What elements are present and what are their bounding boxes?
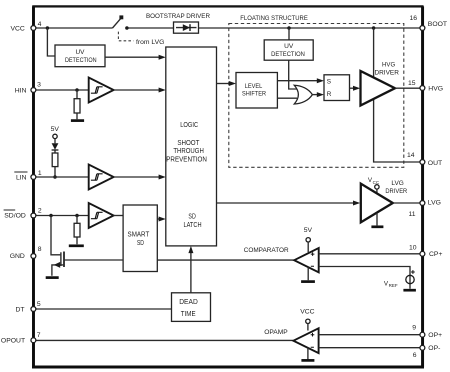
Vref source (406, 275, 414, 283)
svg-text:R: R (327, 91, 332, 98)
SR latch box (324, 75, 350, 101)
junction HIN resistor (75, 88, 79, 92)
wire level shifter to S input (277, 80, 318, 82)
dashed from LVG (118, 32, 133, 41)
wire comparator minus to Vref (319, 267, 410, 289)
smart SD box (123, 205, 157, 272)
svg-text:VCC: VCC (10, 26, 24, 33)
wire LIN buffer to logic (114, 176, 160, 178)
wire mosfet drain to comparator output (64, 259, 294, 261)
svg-text:15: 15 (408, 80, 416, 87)
mosfet Q1 gate path (51, 216, 60, 255)
ground opamp (307, 348, 309, 360)
wire VCC to UV detection (47, 28, 55, 56)
wire UV detection to logic (105, 56, 160, 58)
pin 5 DT (31, 307, 36, 312)
svg-text:8: 8 (38, 246, 42, 253)
ground Vref (403, 289, 416, 292)
svg-text:OPAMP: OPAMP (264, 329, 288, 336)
floating structure dashed box (229, 24, 404, 168)
5V terminal comparator (306, 238, 310, 242)
op-amp OPAMP (293, 328, 318, 353)
svg-text:9: 9 (412, 325, 416, 332)
wire buffer to smart SD (114, 215, 124, 217)
pin 2 SD/OD (31, 213, 36, 218)
svg-text:5V: 5V (51, 126, 60, 133)
svg-text:PREVENTION: PREVENTION (166, 156, 207, 164)
schmitt buffer HIN (89, 78, 114, 103)
schmitt buffer SD (89, 203, 114, 228)
bootstrap driver box (174, 22, 199, 33)
Vcc terminal LVG driver (375, 185, 379, 189)
svg-text:THROUGH: THROUGH (173, 147, 204, 155)
wire HIN buffer to logic (114, 89, 160, 91)
svg-text:1: 1 (38, 170, 42, 177)
svg-text:OPOUT: OPOUT (1, 337, 25, 344)
wire smart SD to SD latch (157, 218, 160, 220)
diode D LIN (54, 139, 56, 153)
svg-text:LEVEL: LEVEL (245, 83, 263, 90)
5V terminal circle (53, 134, 57, 138)
UV detection box (low side) (55, 45, 105, 67)
svg-text:SD: SD (188, 213, 195, 221)
wire OPOUT to opamp (33, 339, 293, 341)
schmitt buffer LIN (89, 165, 114, 190)
svg-text:LOGIC: LOGIC (180, 121, 198, 129)
svg-text:FLOATING STRUCTURE: FLOATING STRUCTURE (240, 15, 308, 22)
junction BOOT to floating UV (287, 26, 291, 30)
pin 14 OUT (420, 160, 425, 165)
pin 8 GND (31, 254, 36, 259)
pin 1 LIN (31, 175, 36, 180)
pin 11 LVG (420, 201, 425, 206)
svg-text:6: 6 (413, 352, 417, 359)
ground SD resistor (69, 244, 84, 247)
svg-text:OP-: OP- (428, 345, 440, 352)
svg-text:SHOOT: SHOOT (177, 139, 200, 147)
svg-text:VCC: VCC (300, 309, 314, 316)
resistor R HIN pulldown (76, 90, 78, 119)
ground HIN resistor (71, 119, 84, 122)
op-amp LVG driver (361, 184, 393, 223)
pin 7 OPOUT (31, 338, 36, 343)
svg-text:14: 14 (407, 152, 415, 159)
wire level shifter to OR gate (277, 97, 297, 99)
svg-text:10: 10 (409, 245, 417, 252)
dead time box (172, 293, 211, 322)
junction BOOT rail to HVG driver (372, 26, 376, 30)
svg-text:5V: 5V (304, 227, 313, 234)
switch on VCC rail (113, 18, 122, 28)
svg-text:OUT: OUT (428, 160, 442, 167)
svg-text:16: 16 (409, 15, 417, 22)
bootstrap diode D1 (176, 27, 197, 29)
OR gate (294, 85, 312, 104)
pin 4 VCC (31, 26, 36, 31)
svg-text:S: S (327, 78, 331, 85)
pin 16 BOOT (420, 26, 425, 31)
wire opamp minus to OP- (319, 347, 422, 349)
junction LIN (53, 175, 57, 179)
wire opamp plus to OP+ (319, 334, 422, 336)
svg-text:7: 7 (37, 332, 41, 339)
svg-text:4: 4 (38, 21, 42, 28)
wire HIN to buffer (33, 89, 88, 91)
ground comparator (307, 267, 309, 280)
svg-text:HVG: HVG (428, 86, 443, 93)
junction VCC (46, 26, 50, 30)
svg-text:UV: UV (284, 43, 294, 50)
svg-text:LVG: LVG (391, 180, 404, 187)
svg-text:SD: SD (137, 240, 144, 247)
ground mosfet (46, 276, 59, 279)
svg-text:REF: REF (389, 283, 398, 288)
svg-text:SD/OD: SD/OD (4, 213, 26, 220)
svg-text:DRIVER: DRIVER (374, 69, 399, 76)
svg-text:BOOT: BOOT (428, 21, 447, 28)
svg-text:2: 2 (38, 208, 42, 215)
svg-text:LIN: LIN (16, 175, 27, 182)
svg-text:HVG: HVG (382, 61, 395, 68)
comparator (294, 248, 319, 272)
wire logic to level shifter (217, 83, 231, 85)
wire SD/OD to buffer (33, 215, 88, 217)
HVG driver supply rail (374, 28, 422, 162)
wire DT to dead time (33, 308, 171, 310)
svg-text:DT: DT (15, 307, 24, 314)
logic box (shoot through prevention / SD latch) (166, 47, 217, 246)
wire LIN to buffer (33, 176, 88, 178)
pin 6 OP- (420, 345, 425, 350)
svg-text:LVG: LVG (428, 199, 441, 206)
level shifter box (236, 73, 277, 109)
ground LVG driver (376, 213, 378, 226)
UV detection box (floating) (264, 40, 313, 60)
svg-text:HIN: HIN (15, 88, 27, 95)
svg-text:BOOTSTRAP DRIVER: BOOTSTRAP DRIVER (146, 13, 210, 20)
svg-text:DRIVER: DRIVER (385, 188, 407, 195)
pin 10 CP+ (420, 251, 425, 256)
wire SR latch to HVG driver (350, 87, 355, 89)
wire floating UV to OR gate (289, 60, 297, 89)
VCC terminal opamp (306, 319, 310, 323)
wire comparator plus to CP+ (319, 253, 422, 255)
pin 15 HVG (420, 86, 425, 91)
svg-text:SHIFTER: SHIFTER (242, 91, 266, 98)
svg-text:from LVG: from LVG (136, 39, 164, 46)
wire dead time to SD latch (190, 251, 192, 293)
svg-text:UV: UV (76, 49, 86, 56)
svg-text:CP+: CP+ (429, 251, 442, 258)
svg-text:LATCH: LATCH (183, 221, 201, 229)
wire logic to LVG driver (217, 202, 355, 204)
junction SD resistor (75, 214, 79, 218)
junction after switch (125, 26, 128, 30)
svg-text:5: 5 (37, 301, 41, 308)
op-amp HVG driver (361, 71, 396, 106)
svg-text:DETECTION: DETECTION (65, 57, 97, 64)
svg-text:DEAD: DEAD (179, 299, 198, 306)
resistor R SD pulldown (76, 216, 78, 245)
svg-text:SMART: SMART (128, 231, 150, 238)
svg-text:TIME: TIME (181, 311, 196, 318)
junction SD gate (49, 214, 53, 218)
wire HVG driver to pin (395, 87, 422, 89)
svg-text:3: 3 (37, 82, 41, 89)
svg-text:OP+: OP+ (428, 332, 442, 339)
svg-text:COMPARATOR: COMPARATOR (244, 247, 289, 254)
wire OR gate to R input (312, 94, 318, 96)
wire VCC to BOOT (top rail) (33, 27, 422, 29)
wire LVG driver to pin (393, 202, 422, 204)
svg-text:11: 11 (409, 211, 416, 218)
svg-text:CC: CC (373, 180, 380, 185)
svg-text:GND: GND (10, 253, 25, 260)
mosfet Q1 (60, 252, 62, 266)
pin 3 HIN (31, 88, 36, 93)
resistor R LIN (52, 153, 58, 167)
svg-text:DETECTION: DETECTION (271, 51, 305, 58)
pin 9 OP+ (420, 332, 425, 337)
wire BOOT to floating UV (288, 28, 290, 40)
